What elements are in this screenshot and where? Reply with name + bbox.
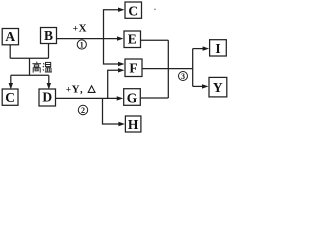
wire arrow to C left [10, 75, 12, 83]
arrowhead into G [117, 96, 124, 100]
svg-text:+Y,: +Y, [66, 84, 83, 96]
box G [124, 89, 141, 106]
arrowhead into F lower [118, 68, 125, 72]
label circled 2 [78, 105, 87, 115]
arrowhead into C left [9, 83, 13, 90]
wire join horizontal [10, 57, 48, 59]
arrowhead into F upper [118, 62, 125, 66]
svg-text:Y: Y [213, 80, 223, 95]
svg-text:1: 1 [80, 41, 84, 50]
box I [210, 40, 227, 56]
svg-text:C: C [128, 4, 138, 19]
svg-text:E: E [128, 31, 137, 46]
box H [125, 116, 140, 132]
svg-text:A: A [5, 29, 15, 44]
wire split vertical [192, 49, 194, 87]
wire fanout horizontal [11, 74, 49, 76]
speckle dot [154, 9, 156, 11]
svg-text:D: D [42, 89, 52, 104]
svg-text:F: F [129, 61, 137, 76]
svg-text:C: C [5, 90, 15, 105]
wire G right [140, 97, 168, 99]
wire E right [141, 39, 169, 41]
arrowhead into Y [202, 84, 209, 88]
arrowhead into I [203, 46, 210, 50]
wire A down [9, 45, 11, 59]
svg-text:3: 3 [181, 72, 185, 81]
label circled 3 [179, 72, 188, 82]
label circled 1 [77, 40, 86, 50]
wire B down [48, 44, 50, 59]
arrowhead into C right [118, 8, 125, 12]
wire center down (gaowen) [29, 58, 31, 75]
wire merge vertical [167, 40, 169, 98]
box Y [209, 77, 227, 97]
svg-text:2: 2 [81, 106, 85, 115]
wire branch2 down to H [103, 98, 120, 124]
svg-text:G: G [127, 90, 138, 105]
box C right [125, 2, 142, 18]
wire branch1 down to F [104, 39, 120, 64]
svg-text:B: B [44, 28, 53, 43]
svg-text:+X: +X [73, 22, 87, 34]
wire B to E [57, 38, 119, 40]
wire arrow to Y [193, 85, 204, 87]
label gaowen (Chinese: high temperature) [32, 62, 52, 73]
arrowhead into E [117, 36, 124, 40]
wire arrow to D [48, 75, 50, 83]
svg-text:H: H [128, 117, 139, 132]
wire D to G [56, 97, 119, 99]
wire arrow to I [193, 48, 204, 50]
wire branch1 up to C right [104, 10, 120, 39]
box D [39, 89, 56, 106]
wire F right to split [142, 68, 193, 70]
label triangle delta [88, 86, 95, 93]
arrowhead into H [118, 122, 125, 126]
arrowhead into D [47, 83, 51, 90]
box E [124, 31, 141, 48]
box C left [2, 89, 18, 105]
wire branch2 up to F [108, 70, 120, 98]
box A [2, 29, 18, 45]
box B [41, 28, 57, 44]
svg-text:I: I [215, 41, 220, 56]
box F [125, 59, 142, 77]
